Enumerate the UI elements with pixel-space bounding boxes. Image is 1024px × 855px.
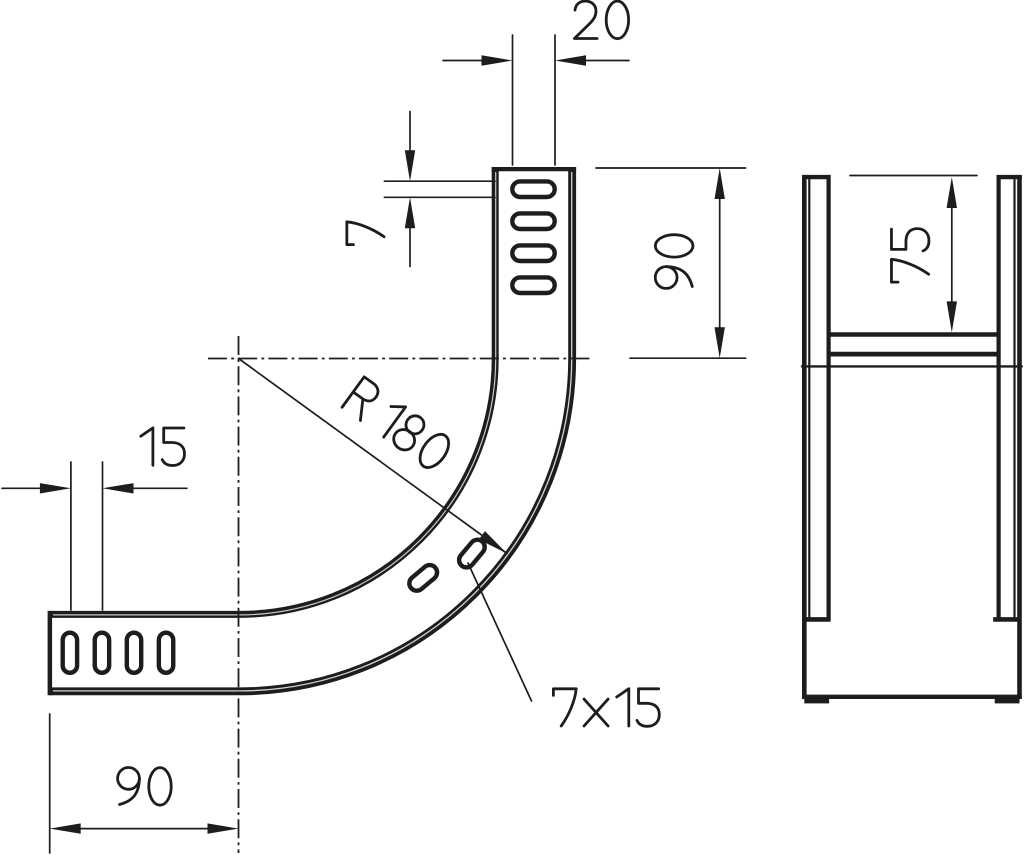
- slot 3 of vertical leg: [512, 245, 554, 261]
- dim 7: upper dimension line tail: [409, 112, 411, 153]
- right foot: [995, 699, 1020, 703]
- dim 20: right dimension line tail: [584, 60, 629, 62]
- dim 15: right dimension line tail: [132, 487, 187, 489]
- dim 7 lower arrowhead: [405, 197, 415, 228]
- dim 15 right arrowhead: [103, 483, 134, 493]
- dim 15: right extension line: [102, 462, 104, 610]
- dim 90 right top arrowhead: [715, 168, 725, 199]
- label "75" (rotated): [891, 229, 929, 283]
- left rail inner edge: [826, 179, 830, 620]
- dim 90 right: dimension line: [719, 197, 721, 329]
- horizontal center line (dash-dot): [208, 336, 590, 853]
- right rail fold line (thin): [1013, 180, 1015, 618]
- dim 90 bottom: left extension line: [49, 714, 51, 853]
- white seam splitting outer contour band: [53, 172, 572, 691]
- leader line to arc slot B (7x15): [468, 563, 532, 701]
- radius R180 leader line: [239, 359, 508, 554]
- bend inner contour band (left wall edge + inner arc + top of bottom leg): [50, 167, 495, 614]
- slot 1 of vertical leg (7x20): [512, 181, 554, 293]
- dim 90 bottom right arrowhead: [208, 823, 239, 833]
- white seam splitting inner contour band: [53, 172, 496, 615]
- slot 4 of horizontal leg: [159, 633, 173, 673]
- label "15": [141, 428, 185, 466]
- dim 20: left extension line: [512, 35, 514, 165]
- crossbar bottom edge: [829, 352, 998, 357]
- dim 90 right: top extension line: [596, 167, 746, 169]
- right rail outer edge: [1017, 175, 1022, 699]
- full-width thin rule: [802, 365, 1022, 367]
- R180 arrowhead on outer arc: [479, 531, 510, 558]
- dim 15: left extension line: [70, 462, 72, 610]
- dim 75: dimension line: [951, 206, 953, 303]
- slot 2 of horizontal leg: [95, 633, 109, 673]
- dim 20: left dimension line tail: [443, 60, 484, 62]
- dim 90 right bottom arrowhead: [715, 327, 725, 358]
- slot 4 of vertical leg: [512, 277, 554, 293]
- slot 2 of vertical leg: [512, 213, 554, 229]
- bend outer contour band (right wall edge + outer arc + bottom of bottom leg): [50, 167, 572, 691]
- left rail fold line (thin): [808, 180, 810, 618]
- crossbar top edge: [829, 332, 998, 337]
- dim 15 left arrowhead: [40, 483, 71, 493]
- right rail inner edge: [996, 179, 1000, 620]
- vertical center line (dash-dot): [238, 336, 240, 853]
- dim 90 bottom: dimension line: [79, 828, 210, 830]
- dim 7: lower extension line: [384, 196, 495, 198]
- left rail top cap: [802, 175, 831, 179]
- dim 7: lower dimension line tail: [409, 226, 411, 266]
- label "90" right (rotated): [655, 235, 693, 289]
- right rail top cap: [997, 175, 1022, 179]
- left foot: [804, 699, 829, 703]
- arc slot B (7x15): [456, 537, 488, 571]
- right rail bottom step: [993, 617, 1019, 622]
- label "20": [574, 1, 628, 39]
- dim 90 right: bottom extension line: [630, 357, 746, 359]
- label "90" bottom: [118, 768, 172, 806]
- top end cap of vertical leg: [492, 167, 576, 171]
- dim 15: left dimension line tail: [2, 487, 42, 489]
- label "R 180" (rotated along radius): [342, 377, 454, 473]
- dim 7 upper arrowhead: [405, 150, 415, 181]
- slot 1 of horizontal leg (7x20): [63, 633, 174, 673]
- dim 75 top arrowhead: [947, 177, 957, 208]
- left rail outer edge: [802, 175, 807, 699]
- dim 20: right extension line: [554, 35, 556, 165]
- label "7x15": [553, 689, 659, 727]
- dim 90 bottom left arrowhead: [50, 823, 81, 833]
- dim 7: upper extension line: [384, 180, 495, 182]
- dim 20 right arrowhead: [555, 55, 586, 65]
- dim 75 bottom arrowhead: [947, 301, 957, 332]
- dim 20 left arrowhead: [482, 55, 513, 65]
- label "7" (rotated): [347, 222, 384, 245]
- dim 75: top extension line: [850, 175, 977, 177]
- left end cap of horizontal leg: [48, 611, 53, 695]
- slot 3 of horizontal leg: [127, 633, 141, 673]
- left rail bottom step: [805, 617, 831, 622]
- bottom edge of profile: [802, 695, 1022, 699]
- arc slot A (7x15): [406, 537, 487, 594]
